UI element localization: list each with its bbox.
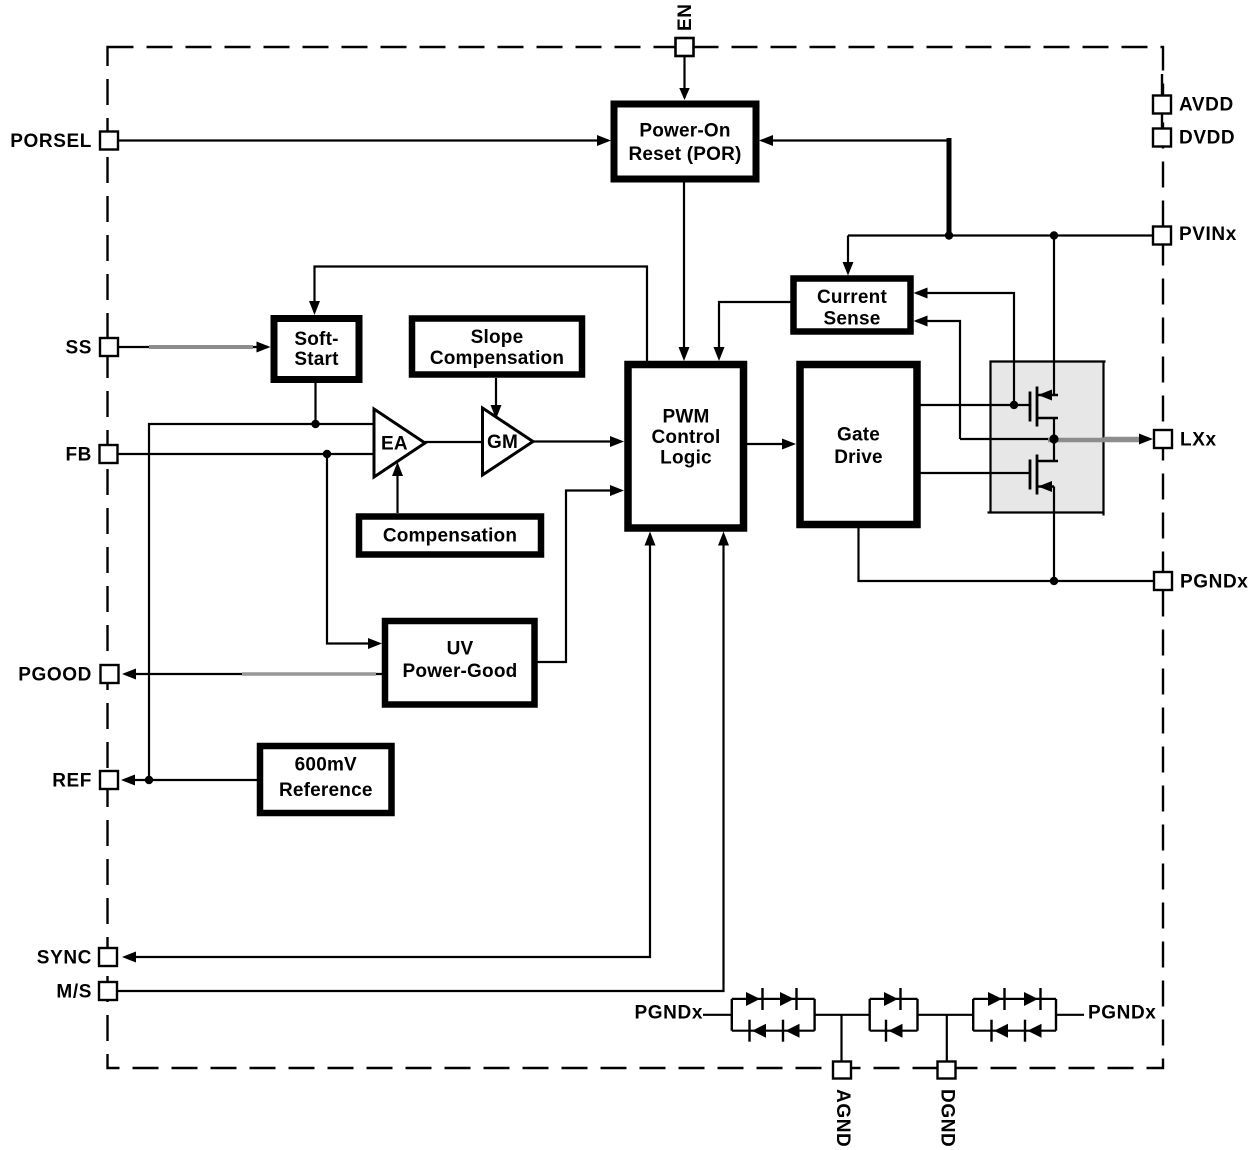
node FB branch bbox=[323, 450, 331, 458]
svg-text:600mV: 600mV bbox=[295, 755, 357, 776]
svg-text:SS: SS bbox=[65, 338, 92, 359]
op-amp GM bbox=[483, 408, 534, 475]
wire PORSEL to POR bbox=[118, 135, 611, 146]
svg-text:Power-On: Power-On bbox=[639, 121, 730, 142]
wire FB to EA lower input bbox=[117, 453, 374, 455]
wire POR right input from PVIN rail bbox=[759, 135, 949, 234]
svg-text:Sense: Sense bbox=[824, 309, 881, 330]
svg-text:PGNDx: PGNDx bbox=[1088, 1003, 1156, 1024]
svg-text:PWM: PWM bbox=[662, 407, 709, 428]
block Soft-Start bbox=[274, 319, 359, 380]
wire Slope Compensation to GM bbox=[491, 378, 502, 419]
pin FB bbox=[65, 445, 117, 466]
pin DVDD bbox=[1153, 128, 1235, 149]
wire PWM Control Logic to Gate Drive bbox=[747, 439, 796, 450]
wire rail PGNDx-AGND bbox=[815, 1014, 870, 1016]
wire M/S to PWM Control Logic bbox=[117, 532, 729, 992]
wire Soft-Start output bbox=[314, 383, 316, 424]
wire Compensation to EA bbox=[392, 462, 403, 513]
svg-text:REF: REF bbox=[52, 771, 92, 792]
wire Gate Drive low-side gate bbox=[921, 472, 1031, 474]
pin EN bbox=[675, 3, 696, 56]
svg-text:Compensation: Compensation bbox=[383, 526, 517, 547]
node Soft-Start / EA input bbox=[311, 420, 319, 428]
wire SYNC to PWM Control Logic bbox=[122, 532, 656, 963]
pin M/S bbox=[56, 982, 117, 1003]
wire REF branch to EA upper input bbox=[149, 424, 374, 780]
pin SYNC bbox=[37, 948, 117, 969]
svg-text:Slope: Slope bbox=[471, 327, 524, 348]
wire FB branch to UV Power-Good bbox=[327, 454, 382, 649]
svg-text:Current: Current bbox=[817, 287, 887, 308]
svg-text:Soft-: Soft- bbox=[294, 329, 338, 350]
wire AGND drop bbox=[840, 1015, 842, 1062]
svg-text:PVINx: PVINx bbox=[1179, 224, 1237, 245]
svg-text:Reference: Reference bbox=[279, 780, 373, 801]
wire PVIN to Current Sense bbox=[843, 236, 854, 276]
svg-text:UV: UV bbox=[447, 639, 474, 660]
pin DGND bbox=[937, 1062, 958, 1148]
svg-text:PGNDx: PGNDx bbox=[1180, 572, 1248, 593]
wire EN to POR bbox=[679, 56, 689, 100]
block UV Power-Good bbox=[385, 621, 535, 705]
wire Gate Drive to PGNDx rail bbox=[859, 528, 1154, 581]
wire PWM feedback to Soft-Start bbox=[309, 267, 647, 362]
svg-text:GM: GM bbox=[487, 432, 518, 453]
block Power-On Reset (POR) U1 bbox=[614, 104, 756, 179]
svg-text:Drive: Drive bbox=[834, 447, 883, 468]
svg-text:FB: FB bbox=[65, 445, 92, 466]
svg-text:SYNC: SYNC bbox=[37, 948, 92, 969]
wire EA to GM bbox=[425, 441, 482, 443]
wire SS to Soft-Start bbox=[118, 342, 271, 353]
transistor Q2 low-side NMOS bbox=[1030, 439, 1058, 581]
wire 600mV Reference to REF bbox=[121, 775, 257, 786]
svg-text:EA: EA bbox=[381, 434, 408, 455]
svg-text:M/S: M/S bbox=[56, 982, 92, 1003]
svg-text:PGNDx: PGNDx bbox=[635, 1003, 703, 1024]
block 600mV Reference bbox=[260, 746, 392, 813]
wire UV Power-Good to PGOOD bbox=[122, 669, 382, 680]
wire UV Power-Good to PWM Control Logic bbox=[538, 485, 625, 662]
pin SS bbox=[65, 338, 118, 359]
op-amp EA bbox=[374, 409, 425, 477]
node LX on PGND rail (low-side source) bbox=[1050, 577, 1058, 585]
svg-text:Logic: Logic bbox=[660, 448, 712, 469]
transistor Q1 high-side NMOS bbox=[1030, 236, 1058, 440]
pin PGNDx bbox=[1154, 572, 1248, 593]
pin LXx bbox=[1154, 430, 1217, 451]
node LX bbox=[1049, 434, 1058, 443]
svg-text:PORSEL: PORSEL bbox=[10, 131, 92, 152]
svg-text:Control: Control bbox=[652, 427, 721, 448]
wire POR to PWM Control Logic bbox=[679, 182, 690, 361]
svg-text:EN: EN bbox=[675, 3, 696, 31]
wire Current Sense to PWM Control Logic bbox=[714, 302, 791, 361]
pin PVINx bbox=[1153, 224, 1237, 245]
pin AVDD bbox=[1153, 95, 1234, 116]
diode pair block 3 (DGND-PGNDx) bbox=[973, 988, 1056, 1042]
block PWM Control Logic bbox=[628, 365, 744, 529]
block Gate Drive bbox=[800, 365, 917, 525]
block Compensation bbox=[359, 517, 541, 555]
svg-text:Gate: Gate bbox=[837, 425, 880, 446]
svg-text:PGOOD: PGOOD bbox=[18, 665, 92, 686]
node on PVIN rail (high-side drain) bbox=[1050, 231, 1058, 239]
svg-text:AVDD: AVDD bbox=[1179, 95, 1234, 116]
svg-text:LXx: LXx bbox=[1180, 430, 1217, 451]
wire DGND drop bbox=[946, 1015, 948, 1062]
wire AVDD/DVDD border stubs bbox=[1161, 74, 1163, 129]
svg-text:Reset (POR): Reset (POR) bbox=[628, 144, 741, 165]
wire GM to PWM Control Logic bbox=[533, 436, 624, 447]
gray power-stage box bbox=[988, 362, 1106, 516]
wire Gate Drive high-side gate bbox=[921, 404, 1031, 406]
wire right PGNDx lead bbox=[1056, 1014, 1084, 1016]
wire rail DGND-block3 bbox=[918, 1014, 974, 1016]
pin REF bbox=[52, 771, 118, 792]
svg-text:DGND: DGND bbox=[937, 1089, 958, 1147]
diode pair block 1 (PGNDx-AGND) bbox=[732, 988, 815, 1042]
wire Current Sense input 2 (LX sense) bbox=[914, 316, 961, 440]
svg-text:AGND: AGND bbox=[832, 1089, 853, 1147]
svg-text:DVDD: DVDD bbox=[1179, 128, 1235, 149]
ground network: wire left PGNDx lead bbox=[703, 1014, 732, 1016]
wire LX line bbox=[960, 434, 1153, 445]
pin PORSEL bbox=[10, 131, 118, 152]
block Slope Compensation bbox=[412, 319, 582, 375]
block Current Sense bbox=[794, 279, 911, 332]
svg-text:Start: Start bbox=[294, 349, 339, 370]
node high-side gate bbox=[1010, 401, 1018, 409]
svg-text:Compensation: Compensation bbox=[430, 348, 564, 369]
pin AGND bbox=[832, 1062, 853, 1148]
pin PGOOD bbox=[18, 665, 118, 686]
chip boundary dashed border bbox=[108, 47, 1164, 1068]
svg-text:Power-Good: Power-Good bbox=[403, 661, 518, 682]
wire Current Sense input 1 (high-side) bbox=[914, 288, 1015, 404]
node REF branch bbox=[145, 776, 153, 784]
node on PVIN rail (POR feed) bbox=[945, 231, 953, 239]
wire PVIN rail bbox=[848, 234, 1154, 236]
diode pair block 2 (AGND-DGND) bbox=[870, 988, 918, 1042]
